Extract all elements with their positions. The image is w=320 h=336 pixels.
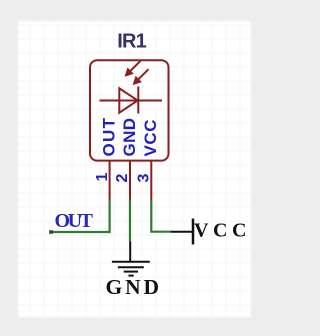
pin name GND (120, 118, 139, 157)
refdes IR1 (117, 31, 147, 53)
ground symbol GND (112, 242, 150, 276)
wire pin3 to VCC flag (151, 200, 170, 232)
pin number 1 (94, 173, 111, 182)
svg-text:GND: GND (120, 118, 139, 157)
pin number 2 (114, 174, 131, 183)
pin name OUT (100, 117, 119, 156)
svg-text:1: 1 (94, 173, 111, 182)
wire end point (OUT) (49, 230, 53, 234)
wire pin2 to ground (129, 200, 131, 242)
power label VCC (194, 220, 247, 242)
svg-text:VCC: VCC (141, 120, 160, 157)
svg-text:OUT: OUT (55, 210, 94, 232)
svg-text:GND: GND (106, 275, 160, 299)
svg-text:VCC: VCC (194, 220, 247, 242)
pin number 3 (136, 174, 153, 183)
wire pin1 to OUT net label (51, 200, 110, 232)
pin 2 lead (129, 161, 131, 202)
component IR1 body outline (90, 60, 169, 160)
photodiode symbol (diode of IR1) (100, 87, 163, 114)
light arrow 2 (incoming IR) (133, 69, 149, 85)
svg-text:IR1: IR1 (117, 31, 147, 53)
ground label GND (106, 275, 160, 299)
light arrow 1 (incoming IR) (125, 61, 141, 77)
svg-text:OUT: OUT (100, 117, 119, 156)
pin 3 lead (150, 161, 152, 202)
pin name VCC (141, 120, 160, 157)
svg-text:2: 2 (114, 174, 131, 183)
pin 1 lead (109, 161, 111, 202)
svg-text:3: 3 (136, 174, 153, 183)
power flag VCC (171, 219, 193, 245)
net label OUT (55, 210, 94, 232)
